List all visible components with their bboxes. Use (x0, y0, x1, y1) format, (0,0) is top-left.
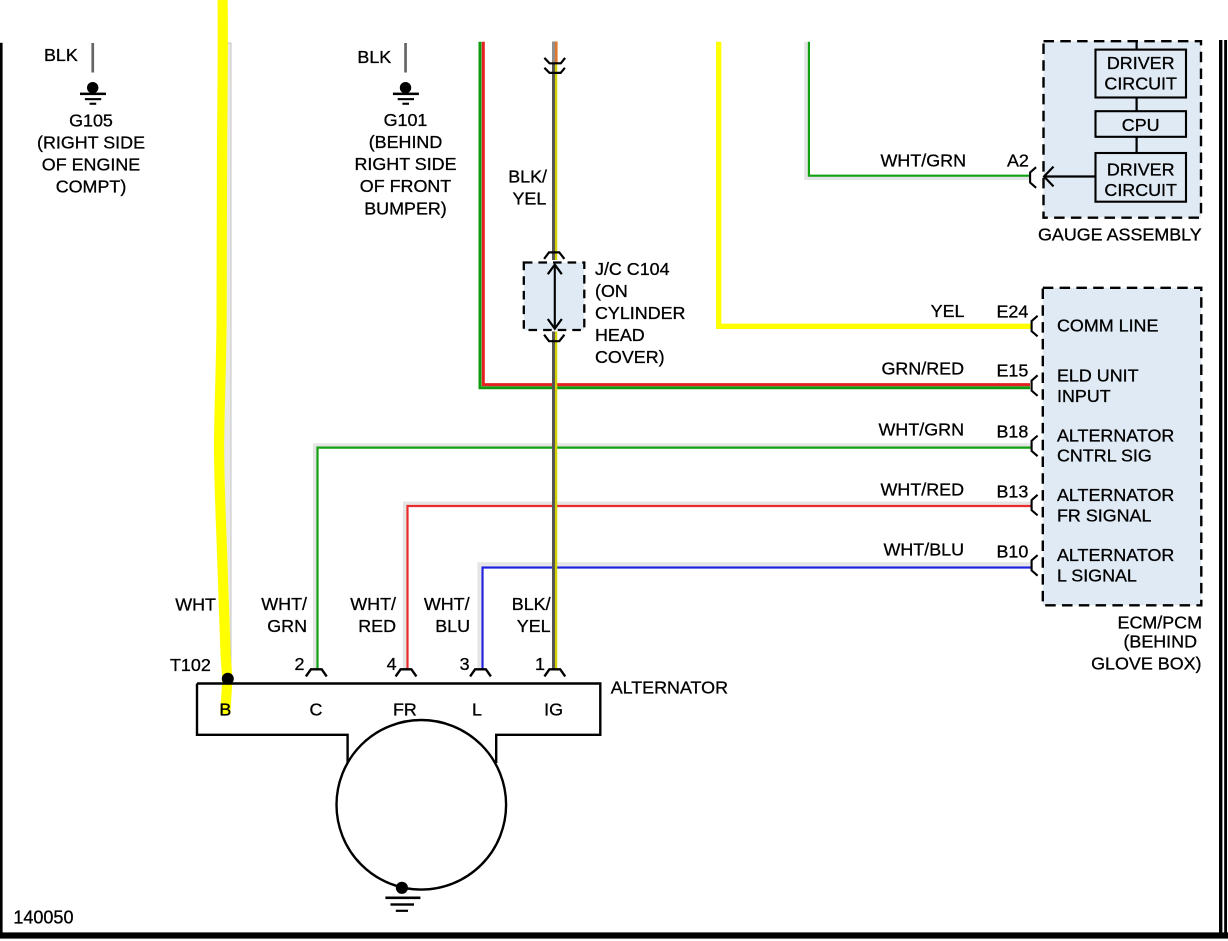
svg-text:YEL: YEL (517, 616, 551, 636)
svg-text:WHT/GRN: WHT/GRN (879, 420, 964, 440)
svg-text:CIRCUIT: CIRCUIT (1104, 180, 1177, 200)
svg-text:COMPT): COMPT) (56, 176, 127, 196)
svg-text:4: 4 (387, 654, 397, 674)
svg-text:E15: E15 (997, 361, 1029, 381)
svg-text:J/C C104: J/C C104 (595, 259, 670, 279)
svg-text:WHT/: WHT/ (424, 594, 470, 614)
svg-text:YEL: YEL (931, 301, 965, 321)
svg-text:COMM LINE: COMM LINE (1057, 316, 1158, 336)
svg-text:RED: RED (358, 616, 396, 636)
svg-text:G105: G105 (69, 110, 113, 130)
svg-text:G101: G101 (384, 110, 428, 130)
svg-text:CPU: CPU (1122, 115, 1160, 135)
svg-text:WHT/: WHT/ (350, 594, 396, 614)
svg-text:OF FRONT: OF FRONT (360, 176, 451, 196)
svg-text:BLK/: BLK/ (512, 594, 551, 614)
svg-text:ELD UNIT: ELD UNIT (1057, 366, 1139, 386)
svg-text:INPUT: INPUT (1057, 386, 1111, 406)
svg-text:BLK: BLK (44, 45, 78, 65)
svg-text:IG: IG (544, 699, 563, 719)
svg-text:B18: B18 (997, 422, 1029, 442)
svg-text:DRIVER: DRIVER (1107, 53, 1175, 73)
svg-text:L: L (472, 699, 482, 719)
svg-text:A2: A2 (1007, 151, 1029, 171)
svg-text:DRIVER: DRIVER (1107, 160, 1175, 180)
svg-text:WHT: WHT (175, 594, 216, 614)
svg-text:BLK/: BLK/ (508, 166, 547, 186)
svg-text:L SIGNAL: L SIGNAL (1057, 566, 1137, 586)
svg-text:COVER): COVER) (595, 347, 665, 367)
svg-text:CNTRL SIG: CNTRL SIG (1057, 446, 1152, 466)
svg-text:ALTERNATOR: ALTERNATOR (1057, 485, 1174, 505)
svg-text:ALTERNATOR: ALTERNATOR (1057, 545, 1174, 565)
svg-text:FR: FR (393, 699, 417, 719)
svg-text:ECM/PCM: ECM/PCM (1118, 612, 1202, 632)
svg-text:WHT/GRN: WHT/GRN (881, 151, 966, 171)
svg-text:T102: T102 (170, 655, 211, 675)
svg-text:(BEHIND: (BEHIND (1123, 631, 1197, 651)
svg-text:CYLINDER: CYLINDER (595, 303, 686, 323)
svg-text:GLOVE BOX): GLOVE BOX) (1091, 653, 1201, 673)
svg-text:HEAD: HEAD (595, 325, 645, 345)
svg-text:B10: B10 (997, 542, 1029, 562)
svg-text:GAUGE ASSEMBLY: GAUGE ASSEMBLY (1038, 224, 1202, 244)
svg-text:CIRCUIT: CIRCUIT (1104, 73, 1177, 93)
svg-text:YEL: YEL (512, 189, 546, 209)
svg-text:(BEHIND: (BEHIND (369, 132, 443, 152)
svg-text:C: C (309, 699, 322, 719)
svg-text:(ON: (ON (595, 281, 628, 301)
svg-text:1: 1 (535, 654, 545, 674)
svg-text:3: 3 (460, 654, 470, 674)
svg-text:FR SIGNAL: FR SIGNAL (1057, 506, 1151, 526)
svg-text:2: 2 (295, 654, 305, 674)
svg-text:(RIGHT SIDE: (RIGHT SIDE (37, 132, 145, 152)
svg-text:GRN/RED: GRN/RED (882, 359, 965, 379)
svg-text:OF ENGINE: OF ENGINE (42, 154, 140, 174)
svg-text:B: B (219, 699, 231, 719)
svg-text:BLU: BLU (435, 616, 470, 636)
svg-text:ALTERNATOR: ALTERNATOR (1057, 426, 1174, 446)
svg-text:140050: 140050 (13, 907, 73, 927)
svg-text:ALTERNATOR: ALTERNATOR (611, 677, 728, 697)
svg-text:WHT/RED: WHT/RED (881, 480, 965, 500)
svg-text:BLK: BLK (357, 47, 391, 67)
svg-text:BUMPER): BUMPER) (364, 199, 447, 219)
svg-text:B13: B13 (997, 482, 1029, 502)
svg-text:GRN: GRN (267, 616, 307, 636)
svg-text:WHT/BLU: WHT/BLU (883, 540, 964, 560)
svg-text:E24: E24 (997, 302, 1029, 322)
svg-text:RIGHT SIDE: RIGHT SIDE (354, 154, 456, 174)
svg-text:WHT/: WHT/ (261, 594, 307, 614)
